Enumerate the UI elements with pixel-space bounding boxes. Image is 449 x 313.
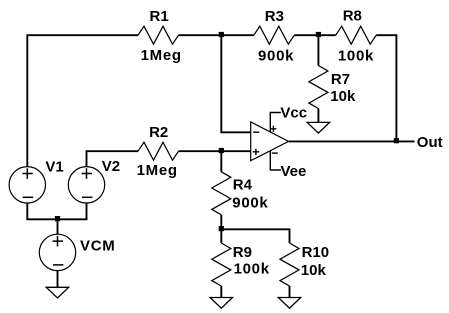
wire op-amp output to Out bbox=[289, 140, 415, 142]
svg-text:100k: 100k bbox=[234, 261, 270, 278]
ground below VCM bbox=[46, 287, 68, 298]
svg-text:R7: R7 bbox=[331, 71, 350, 88]
wire V2 bottom to common node bbox=[58, 203, 87, 220]
wire VCM bottom to ground bbox=[57, 271, 59, 288]
resistor R1 bbox=[138, 26, 179, 44]
wire top-left from V1 up and across to R1 bbox=[27, 35, 138, 167]
resistor R9 bbox=[220, 229, 222, 243]
wire R3 to R8 bbox=[294, 34, 335, 36]
svg-text:100k: 100k bbox=[338, 47, 374, 64]
svg-text:Vcc: Vcc bbox=[280, 104, 307, 121]
svg-text:R9: R9 bbox=[233, 244, 252, 261]
node junction V1/V2/VCM bbox=[55, 216, 60, 221]
voltage source VCM bbox=[39, 234, 75, 270]
wire junction to R10 bbox=[221, 229, 289, 243]
wire common node to VCM bbox=[57, 219, 59, 234]
ground below R10 bbox=[278, 298, 300, 309]
svg-text:R4: R4 bbox=[233, 176, 253, 193]
op-amp negative supply minus mark bbox=[272, 152, 278, 154]
op-amp inverting input minus mark bbox=[253, 131, 259, 133]
node junction output/feedback bbox=[394, 138, 399, 143]
resistor R2 bbox=[138, 142, 179, 160]
svg-text:V1: V1 bbox=[45, 158, 63, 175]
svg-text:Vee: Vee bbox=[281, 163, 307, 180]
op-amp positive supply plus mark bbox=[270, 126, 276, 132]
node junction R2/R4/non-inverting-input bbox=[219, 148, 224, 153]
node junction R4/R9/R10 bbox=[219, 226, 224, 231]
ground below R9 bbox=[210, 298, 232, 309]
svg-text:10k: 10k bbox=[330, 88, 356, 105]
svg-text:R1: R1 bbox=[150, 8, 169, 25]
resistor R7 bbox=[317, 35, 319, 65]
wire R1 to R3 bbox=[179, 34, 254, 36]
svg-text:Out: Out bbox=[417, 134, 443, 151]
wire R2 to op-amp non-inverting input bbox=[179, 150, 251, 152]
op-amp non-inverting input plus mark bbox=[253, 149, 259, 155]
svg-text:R10: R10 bbox=[302, 244, 330, 261]
node junction R3/R8/R7 bbox=[316, 32, 321, 37]
svg-text:900k: 900k bbox=[232, 194, 268, 211]
op-amp Vee pin bbox=[270, 151, 281, 170]
svg-text:R3: R3 bbox=[265, 8, 284, 25]
op-amp U1 bbox=[251, 122, 289, 161]
svg-text:R8: R8 bbox=[343, 8, 362, 25]
svg-text:VCM: VCM bbox=[80, 238, 115, 255]
wire V1 bottom to common node bbox=[27, 203, 57, 220]
voltage source V1 bbox=[9, 167, 45, 203]
svg-text:1Meg: 1Meg bbox=[141, 47, 182, 64]
wire R8 right side down to output node bbox=[376, 35, 396, 141]
resistor R4 bbox=[220, 151, 222, 172]
wire V2 top to R2 bbox=[87, 151, 139, 167]
ground below R7 bbox=[307, 122, 329, 133]
svg-text:900k: 900k bbox=[258, 47, 294, 64]
svg-text:1Meg: 1Meg bbox=[137, 162, 178, 179]
svg-text:V2: V2 bbox=[102, 158, 120, 175]
resistor R3 bbox=[254, 26, 294, 44]
svg-text:R2: R2 bbox=[149, 124, 168, 141]
resistor R8 bbox=[336, 26, 377, 44]
op-amp Vcc pin bbox=[270, 113, 281, 133]
voltage source V2 bbox=[68, 167, 104, 203]
svg-text:10k: 10k bbox=[301, 262, 327, 279]
node junction R1/R3/inverting-input bbox=[219, 32, 224, 37]
wire inverting input from top node down to op-amp bbox=[221, 35, 251, 132]
resistor R10 bbox=[280, 243, 299, 286]
